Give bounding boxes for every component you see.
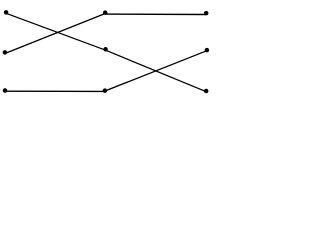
wire BL to BM [5,90,105,92]
node BL [3,88,8,93]
node MR [205,48,210,53]
node BM [103,88,108,93]
node ML [3,50,8,55]
wire TM to TR [105,13,206,15]
node MM [103,47,108,52]
wire ML to TM [5,14,105,54]
node TM [103,10,108,15]
node TL [4,10,9,15]
wire BM to MR [105,51,207,91]
wire MM to BR [106,50,207,91]
node TR [204,11,209,16]
wire TL to MM [6,13,106,50]
node BR [204,89,209,94]
